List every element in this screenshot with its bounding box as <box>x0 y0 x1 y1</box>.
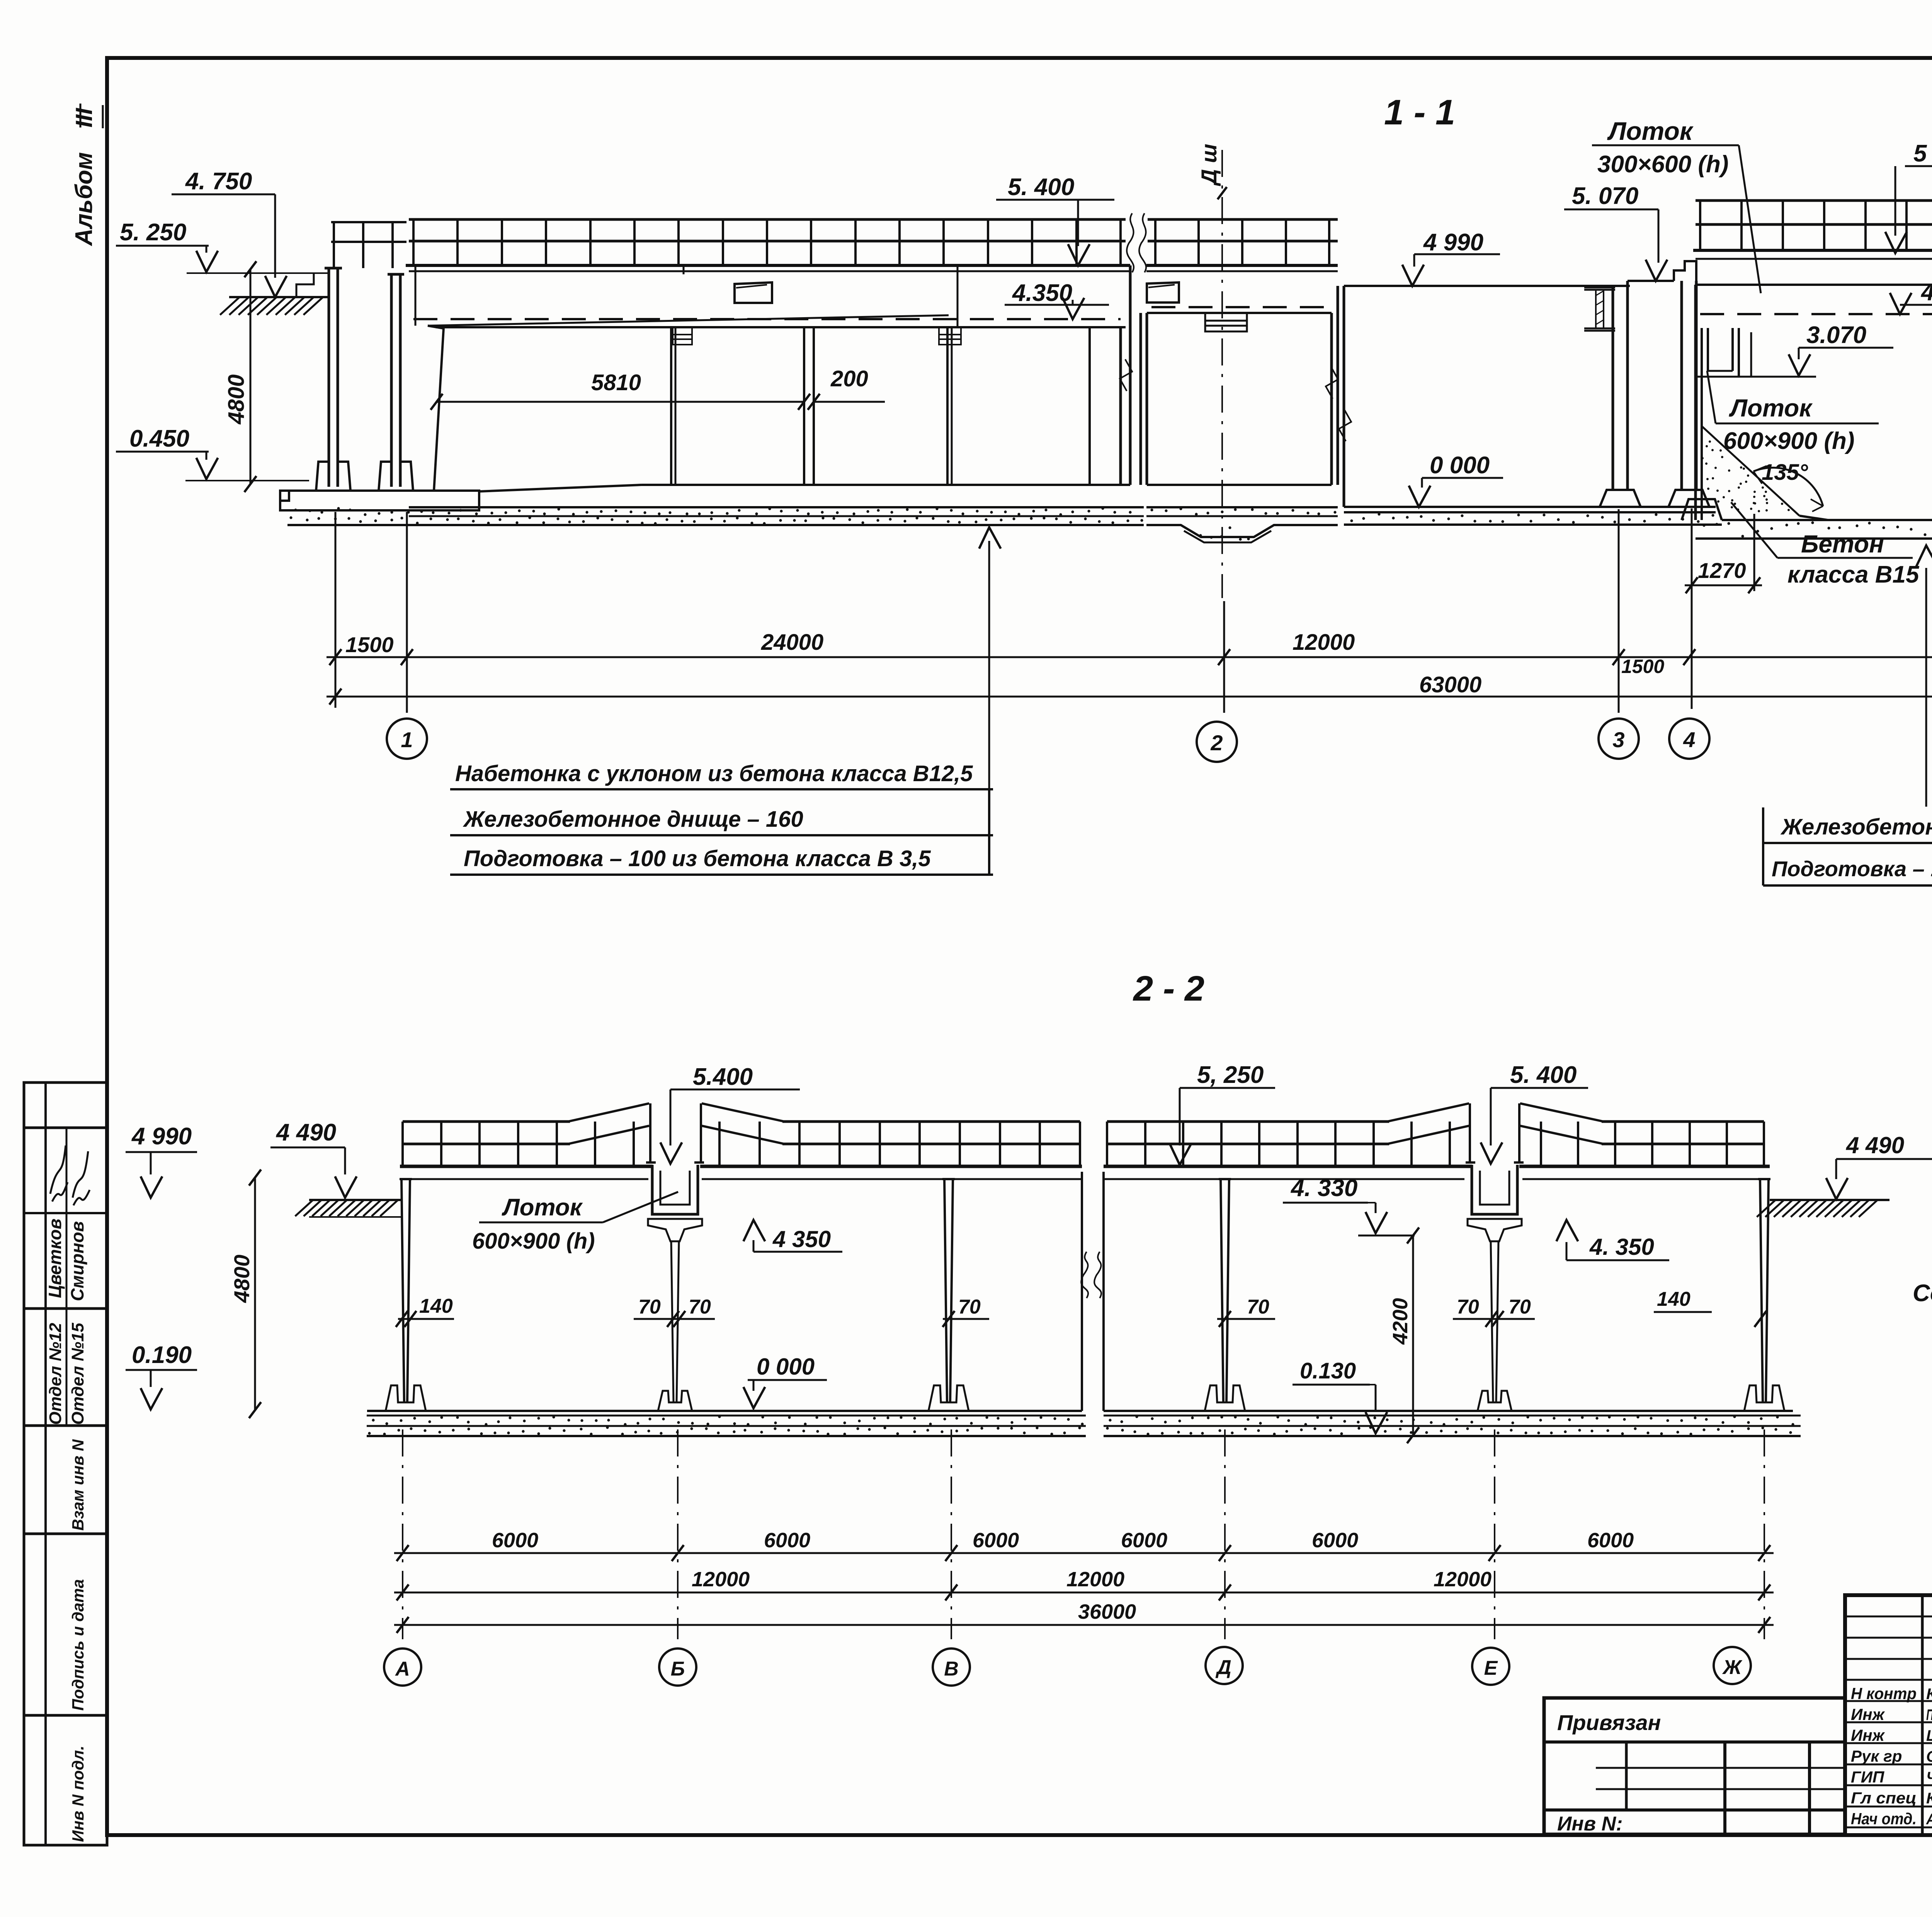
tilted railing end left of trough Б <box>568 1103 649 1122</box>
svg-text:5810: 5810 <box>591 370 641 395</box>
floor of tank 1 <box>479 485 641 491</box>
svg-text:Отдел №12: Отдел №12 <box>46 1323 65 1425</box>
svg-text:1500: 1500 <box>345 632 394 657</box>
svg-text:А: А <box>395 1658 410 1680</box>
railing bay 2 left group <box>782 1120 1080 1123</box>
axis circle Е <box>1472 1648 1509 1685</box>
svg-text:1: 1 <box>401 727 413 752</box>
svg-text:4.350: 4.350 <box>1012 280 1072 306</box>
right wall of tank 1 <box>1119 327 1122 485</box>
svg-text:5. 400: 5. 400 <box>1008 174 1074 201</box>
svg-text:5.400: 5.400 <box>693 1064 753 1090</box>
svg-text:Петропавловская: Петропавловская <box>1926 1706 1932 1723</box>
railing right group bay 2 <box>1602 1120 1764 1123</box>
svg-text:200: 200 <box>830 366 868 391</box>
svg-text:Цветков: Цветков <box>45 1219 65 1298</box>
middle tank base band <box>1344 511 1716 513</box>
svg-text:класса В15: класса В15 <box>1787 561 1920 588</box>
walkway railing segment 2 <box>1148 218 1338 221</box>
floor of settling tank segment 1 <box>1722 519 1932 521</box>
svg-text:Лоток: Лоток <box>502 1194 583 1221</box>
central channel right wall (axis 4) <box>1680 281 1683 490</box>
svg-text:5. 400: 5. 400 <box>1510 1062 1577 1088</box>
walkway railing over settling tank segment 1 <box>1696 199 1932 202</box>
I-beam detail at middle tank corner <box>1584 287 1615 331</box>
svg-text:III: III <box>71 108 97 127</box>
trough at axis Е <box>1472 1165 1517 1214</box>
floor of segment 2 <box>1147 484 1332 486</box>
svg-text:Железобетонное днище – 160: Железобетонное днище – 160 <box>1780 814 1932 840</box>
svg-text:2: 2 <box>1210 731 1223 755</box>
svg-text:0 000: 0 000 <box>757 1354 815 1380</box>
svg-text:6000: 6000 <box>492 1529 538 1552</box>
axis circle 1 <box>387 719 427 759</box>
dimension 1270 <box>1691 508 1693 709</box>
slab joint above wall 2455 <box>957 265 959 327</box>
floor step down to settling tank <box>1799 516 1828 520</box>
svg-text:70: 70 <box>1457 1296 1479 1318</box>
left channel walkway railing <box>331 221 406 223</box>
extension lines section 1-1 dims <box>335 512 337 708</box>
svg-text:5. 250: 5. 250 <box>120 219 186 246</box>
top slab of settling tank segment 1 <box>1693 249 1932 252</box>
slab joint above wall 1737 <box>683 265 685 274</box>
interior wall of tank 1 at x2455 <box>946 327 949 485</box>
svg-text:Железобетонное днище – 160: Железобетонное днище – 160 <box>463 807 803 832</box>
svg-text:0.130: 0.130 <box>1300 1358 1356 1383</box>
svg-text:12000: 12000 <box>692 1568 750 1591</box>
svg-text:63000: 63000 <box>1419 672 1481 697</box>
trough 600x900 in settling tank <box>1702 328 1739 377</box>
svg-text:0.450: 0.450 <box>129 425 189 452</box>
svg-text:Совместно с данным см л.л.: Совместно с данным см л.л. КЖ-2,4. <box>1913 1280 1932 1307</box>
svg-text:4. 750: 4. 750 <box>185 168 252 195</box>
dimension line 12000 row <box>394 1592 1774 1594</box>
svg-text:4.350: 4.350 <box>1920 279 1932 306</box>
svg-text:Смирнов: Смирнов <box>67 1221 87 1301</box>
svg-text:Б: Б <box>671 1658 685 1680</box>
tilted railing end right of trough Е <box>1520 1103 1604 1122</box>
svg-text:70: 70 <box>1509 1296 1531 1318</box>
svg-text:Инв N подл.: Инв N подл. <box>69 1745 87 1842</box>
break squiggles between tank segments <box>1127 213 1134 272</box>
svg-text:70: 70 <box>958 1296 981 1318</box>
inner wall of inlet channel <box>390 274 393 487</box>
svg-text:Альтшуллер: Альтшуллер <box>1926 1811 1932 1828</box>
svg-text:Д: Д <box>1215 1656 1231 1679</box>
svg-text:Козловичер: Козловичер <box>1926 1790 1932 1807</box>
svg-text:4 490: 4 490 <box>1846 1132 1904 1158</box>
vertical dimension 4800 left <box>250 269 252 484</box>
base band left group 2-2 <box>367 1415 1086 1417</box>
svg-text:ГИП: ГИП <box>1851 1768 1884 1786</box>
dimension line 36000 row <box>394 1624 1774 1626</box>
top slab of tank 1 <box>406 264 1130 267</box>
Привязан box <box>1544 1698 1845 1834</box>
svg-text:Н контр: Н контр <box>1851 1684 1917 1703</box>
svg-text:12000: 12000 <box>1066 1568 1124 1591</box>
wall break mark segment 2 wall <box>1326 367 1338 399</box>
svg-text:1500: 1500 <box>1621 656 1664 677</box>
svg-text:Гл спец: Гл спец <box>1851 1789 1917 1807</box>
level line 5.250 left <box>187 272 329 274</box>
left outer wall of inlet channel <box>328 268 330 487</box>
axis circle Б <box>659 1648 696 1686</box>
axis circle В <box>933 1648 970 1686</box>
svg-text:4. 350: 4. 350 <box>1589 1234 1654 1260</box>
svg-text:6000: 6000 <box>1121 1529 1167 1552</box>
svg-text:4 350: 4 350 <box>772 1226 831 1252</box>
axis Д.ш centerline <box>1221 150 1223 598</box>
pipe bracket below slab segment 2 <box>1205 314 1247 331</box>
pipe bracket below slab at wall 2455 <box>939 327 961 345</box>
svg-text:4 490: 4 490 <box>276 1119 336 1146</box>
svg-text:5. 070: 5. 070 <box>1572 183 1638 209</box>
middle tank left wall <box>1343 286 1345 507</box>
svg-text:600×900 (h): 600×900 (h) <box>1723 428 1855 454</box>
svg-text:Д ш: Д ш <box>1197 144 1221 186</box>
break squiggle left group <box>1081 1252 1088 1298</box>
central channel left wall (axis 3) <box>1612 286 1614 490</box>
svg-text:12000: 12000 <box>1434 1568 1492 1591</box>
svg-text:Инж: Инж <box>1851 1726 1885 1744</box>
svg-text:12000: 12000 <box>1293 630 1355 655</box>
svg-text:4200: 4200 <box>1389 1298 1412 1345</box>
left wall of settling tank <box>1694 285 1697 520</box>
svg-text:1 - 1: 1 - 1 <box>1384 93 1455 132</box>
stepped top of central channel <box>1628 261 1696 281</box>
middle tank top edge <box>1344 285 1613 287</box>
svg-text:Цветкова: Цветкова <box>1926 1727 1932 1744</box>
base band segment 2 with sump <box>1146 506 1338 508</box>
svg-text:0 000: 0 000 <box>1430 452 1490 479</box>
left interior wall face of tank 1 <box>434 328 444 491</box>
interior wall of tank 1 at x1737 <box>670 327 672 485</box>
svg-text:Привязан: Привязан <box>1557 1710 1661 1735</box>
svg-text:6000: 6000 <box>1587 1529 1634 1552</box>
svg-text:4 990: 4 990 <box>131 1123 192 1150</box>
svg-text:Подготовка – 100 из бетона кла: Подготовка – 100 из бетона класса В 3,5 <box>464 846 931 871</box>
svg-text:4800: 4800 <box>230 1254 254 1303</box>
svg-text:140: 140 <box>419 1295 453 1317</box>
svg-text:135°: 135° <box>1762 460 1808 485</box>
base slab band under tank 1 <box>409 506 1144 508</box>
svg-text:5 030: 5 030 <box>1913 140 1932 167</box>
trough at axis Б <box>652 1165 698 1214</box>
svg-text:3.070: 3.070 <box>1806 322 1866 348</box>
tilted railing end left of trough Е <box>1387 1103 1469 1122</box>
svg-text:5, 250: 5, 250 <box>1197 1062 1264 1088</box>
wall at axis В <box>944 1179 947 1402</box>
main title block frame <box>1845 1595 1932 1835</box>
railing right group bay 1 <box>1107 1120 1389 1123</box>
axis circle А <box>384 1648 421 1686</box>
slab left edge rib tank 1 <box>415 265 417 326</box>
ground hatch right of axis Ж <box>1770 1199 1889 1201</box>
wall break mark middle tank left wall <box>1339 410 1351 441</box>
level line 4.330 <box>1358 1235 1415 1237</box>
interior wall of tank 1 at x2820 <box>1088 327 1091 485</box>
left edge of right group <box>1102 1172 1105 1411</box>
stamp signatures <box>50 1145 68 1202</box>
wall at axis Ж <box>1760 1179 1763 1402</box>
sloped screed line in tank 1 <box>428 315 949 326</box>
svg-text:600×900 (h): 600×900 (h) <box>472 1229 595 1254</box>
axis circle Ж <box>1714 1647 1751 1684</box>
left group railing bay 1 <box>403 1120 570 1123</box>
svg-text:70: 70 <box>638 1296 661 1318</box>
svg-text:В: В <box>944 1658 959 1680</box>
base block below inlet channel <box>280 491 479 510</box>
middle tank floor <box>1344 506 1613 508</box>
svg-text:Е: Е <box>1484 1657 1498 1679</box>
hatch opening in slab segment 2 <box>1147 282 1179 303</box>
sump detail dots <box>1199 534 1202 537</box>
dimension 5810 inside tank 1 <box>437 401 804 403</box>
floor line left group 2-2 <box>367 1410 1082 1412</box>
wall break mark tank1 right wall <box>1120 359 1132 391</box>
ground line left 2-2 <box>309 1199 402 1201</box>
svg-text:300×600 (h): 300×600 (h) <box>1597 151 1729 178</box>
svg-text:3: 3 <box>1612 727 1624 752</box>
svg-text:6000: 6000 <box>973 1529 1019 1552</box>
svg-text:Взам инв N: Взам инв N <box>69 1439 87 1531</box>
left group walkway slab 2-2 <box>400 1165 653 1168</box>
svg-text:Инв N:: Инв N: <box>1557 1813 1623 1835</box>
axis circle 3 <box>1599 719 1639 759</box>
vertical dimension 4800 2-2 <box>254 1178 256 1410</box>
svg-text:Инж: Инж <box>1851 1705 1885 1723</box>
interior wall pair of tank 1 (200) <box>803 327 805 485</box>
svg-text:Ж: Ж <box>1722 1656 1743 1679</box>
floor line right group 2-2 <box>1104 1410 1793 1412</box>
left wall pair of middle segment <box>1139 313 1142 485</box>
axis circle 4 <box>1669 719 1709 759</box>
slab right of trough Е <box>1519 1165 1770 1168</box>
svg-text:36000: 36000 <box>1078 1600 1136 1623</box>
svg-text:70: 70 <box>689 1296 711 1318</box>
wall at axis А <box>401 1179 404 1402</box>
feet under settling tank left wall <box>1682 499 1722 520</box>
base band right group 2-2 <box>1104 1415 1801 1417</box>
ground line left of section 1-1 <box>229 296 329 298</box>
bench step at 4.750 arrow <box>296 273 314 297</box>
level line 0.450 left <box>185 480 309 481</box>
base band settling tank segment 1 <box>1696 537 1932 540</box>
up arrow to base band <box>1925 568 1927 807</box>
axis extension lines 2-2 <box>402 1429 403 1639</box>
svg-text:4800: 4800 <box>224 374 249 425</box>
svg-text:4. 330: 4. 330 <box>1290 1175 1357 1202</box>
dimension 200 at wall pair <box>814 401 885 403</box>
walkway railing over aeration tank 1 <box>409 218 1126 221</box>
svg-text:4 990: 4 990 <box>1423 229 1483 256</box>
right edge of left group <box>1081 1172 1083 1411</box>
svg-text:Альбом: Альбом <box>71 152 97 246</box>
svg-text:6000: 6000 <box>1312 1529 1358 1552</box>
svg-text:Лоток: Лоток <box>1607 117 1694 145</box>
svg-text:Бетон: Бетон <box>1801 530 1884 558</box>
svg-text:Отдел №15: Отдел №15 <box>68 1323 87 1425</box>
svg-text:Набетонка с уклоном из бетона: Набетонка с уклоном из бетона класса В12… <box>455 761 973 786</box>
signature table verticals <box>1921 1595 1924 1834</box>
svg-text:24000: 24000 <box>761 630 823 655</box>
svg-text:Лоток: Лоток <box>1729 394 1813 422</box>
svg-text:2 - 2: 2 - 2 <box>1133 969 1204 1008</box>
dimension line row 1 section 1-1 <box>327 656 1932 658</box>
svg-text:Подготовка – 100 из бетона кла: Подготовка – 100 из бетона класса В3,5 <box>1772 857 1932 881</box>
dimension line row 2 (63000) <box>327 696 1932 698</box>
right group walkway slab <box>1104 1165 1472 1168</box>
svg-text:70: 70 <box>1247 1296 1269 1318</box>
leader from base to left notes <box>988 541 990 789</box>
svg-text:Сененова: Сененова <box>1926 1748 1932 1765</box>
top slab segment 2 <box>1146 264 1338 267</box>
svg-text:0.190: 0.190 <box>132 1342 192 1368</box>
right wall of segment 2 <box>1330 313 1333 485</box>
foundation foot under inner wall <box>379 462 413 491</box>
concrete wedge at axis 4 wall <box>1702 426 1799 516</box>
svg-text:Козловичер: Козловичер <box>1926 1686 1932 1703</box>
svg-text:Рук гр: Рук гр <box>1851 1747 1902 1765</box>
pipe bracket below slab at wall 1737 <box>673 327 692 345</box>
axis circle Д <box>1206 1647 1243 1684</box>
vertical dimension 4200 <box>1412 1236 1414 1435</box>
svg-text:4: 4 <box>1683 727 1695 752</box>
svg-text:1270: 1270 <box>1698 558 1746 583</box>
dimension line 6000 row <box>394 1552 1774 1554</box>
foundation foot under left outer wall <box>316 462 350 491</box>
signature table rows <box>1845 1616 1932 1618</box>
hatch opening in slab <box>735 282 772 303</box>
svg-text:Подпись и дата: Подпись и дата <box>69 1579 87 1711</box>
feet of central channel walls <box>1600 490 1641 507</box>
axis circle 2 <box>1197 722 1237 762</box>
left stamp column box <box>24 1083 107 1845</box>
svg-text:Чирков: Чирков <box>1926 1769 1932 1786</box>
wall at axis Д <box>1221 1179 1223 1402</box>
svg-text:140: 140 <box>1657 1288 1690 1310</box>
tilted railing end right of trough Б <box>702 1103 784 1122</box>
svg-text:Нач отд.: Нач отд. <box>1851 1810 1917 1828</box>
svg-text:6000: 6000 <box>764 1529 810 1552</box>
slab right of trough Б <box>700 1165 1082 1168</box>
